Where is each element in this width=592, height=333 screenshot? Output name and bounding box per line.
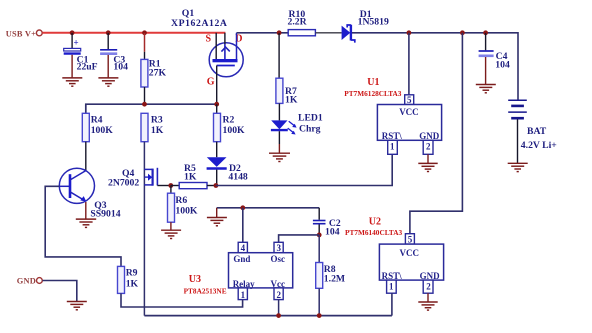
junction G/R2 bus: [214, 102, 219, 107]
svg-text:2: 2: [426, 281, 431, 291]
U1 pin 1 box: [388, 140, 398, 154]
ground (GND terminal): [67, 302, 87, 310]
junction R5/D2/RST net: [214, 183, 219, 188]
wire R7 top lead: [278, 33, 280, 78]
wire U3 pin3 to C2 junction: [279, 235, 320, 242]
svg-text:104: 104: [113, 62, 128, 73]
U3 pin 2 box: [274, 288, 283, 300]
wire LED1 ground stub: [278, 144, 280, 153]
svg-text:1K: 1K: [126, 278, 139, 289]
wire U2 GND stub: [427, 293, 429, 302]
svg-text:XP162A12A: XP162A12A: [171, 18, 228, 29]
wire R1 top lead (dark segment): [144, 52, 146, 60]
wire RST net (D2 junction to U1 pin1): [216, 154, 392, 185]
svg-text:R2: R2: [223, 114, 235, 125]
svg-text:5: 5: [408, 235, 413, 245]
wire U2 pin1 to bottom bus: [391, 293, 393, 315]
ground (under battery): [508, 163, 528, 171]
battery BAT: [508, 100, 527, 118]
wire C2 bottom lead: [318, 225, 320, 235]
svg-text:4: 4: [241, 243, 246, 253]
ground (under Q3): [76, 219, 96, 227]
svg-text:BAT: BAT: [527, 126, 547, 137]
resistor R3: [141, 113, 148, 141]
wire gate bias bus: [86, 104, 217, 113]
wire Q1 drain to R10: [237, 32, 289, 34]
ground (under C4): [476, 85, 496, 93]
svg-text:27K: 27K: [149, 67, 167, 78]
svg-text:U3: U3: [189, 274, 201, 285]
svg-text:G: G: [207, 77, 215, 88]
svg-text:4.2V Li+: 4.2V Li+: [521, 140, 558, 151]
resistor R5: [179, 183, 207, 189]
svg-text:R3: R3: [151, 114, 163, 125]
wire R2 top lead: [216, 104, 218, 113]
wire bottom bus: [144, 315, 392, 317]
resistor R1: [141, 59, 148, 87]
svg-text:R4: R4: [91, 114, 103, 125]
svg-text:1: 1: [389, 281, 394, 291]
svg-text:3: 3: [276, 243, 281, 253]
svg-text:104: 104: [495, 60, 510, 71]
svg-text:S: S: [206, 34, 212, 45]
junction C3/rail: [106, 30, 111, 35]
wire VBUS rail (red): [42, 32, 225, 34]
wire Q1 gate lead down: [216, 66, 218, 105]
svg-text:1K: 1K: [151, 125, 164, 136]
svg-text:5: 5: [407, 95, 412, 105]
junction R1/R3 bus: [142, 102, 147, 107]
U1 pin 2 box: [423, 140, 433, 154]
wire battery negative lead: [517, 119, 519, 163]
wire C3 top lead: [107, 33, 109, 49]
wire U3 pin4 lead: [242, 208, 244, 243]
svg-text:VCC: VCC: [400, 248, 420, 258]
wire C2 top lead: [318, 208, 320, 220]
wire R4 to Q3 collector: [85, 142, 87, 171]
junction U3-pin2/bus: [276, 313, 281, 318]
svg-text:2: 2: [276, 290, 281, 300]
terminal GND: [37, 278, 43, 284]
wire U1 GND stub: [427, 154, 429, 163]
svg-text:104: 104: [325, 226, 340, 237]
wire R1 bottom lead: [144, 87, 146, 104]
svg-text:Osc: Osc: [271, 254, 286, 264]
ground (under C3): [98, 78, 118, 86]
svg-text:+: +: [74, 38, 79, 48]
junction R8/bus: [317, 313, 322, 318]
U2 pin 1 box: [387, 280, 397, 293]
wire LED1 cathode lead: [278, 131, 280, 144]
wire R3 through Q4 to bottom bus: [143, 142, 145, 316]
wire U2 VCC feed: [410, 33, 463, 234]
svg-text:U1: U1: [367, 77, 379, 88]
resistor R6: [168, 193, 175, 222]
wire Q4 gate lead: [157, 185, 170, 187]
ground (under R6): [161, 230, 181, 238]
junction U2-feed/net: [460, 30, 465, 35]
junction U1-VCC/net: [407, 30, 412, 35]
ground (under U1 pin2): [418, 163, 437, 171]
svg-text:LED1: LED1: [298, 113, 323, 124]
wire C4 top lead: [485, 33, 487, 50]
wire OSC net (ground to C2 top): [217, 207, 320, 209]
ground (under LED1): [269, 153, 290, 161]
wire C3 ground stub: [107, 55, 109, 78]
svg-text:R6: R6: [175, 195, 187, 206]
svg-text:1K: 1K: [285, 94, 298, 105]
ground (OSC net): [207, 218, 227, 226]
svg-text:2N7002: 2N7002: [108, 178, 139, 189]
wire D2 cathode lead: [216, 170, 218, 186]
transistor Q1 (P-MOSFET): [209, 33, 243, 77]
terminal USB V+: [36, 30, 42, 36]
op-amp U3 body: [229, 253, 293, 288]
wire R8 feed from C2 junction: [318, 235, 320, 263]
svg-text:22uF: 22uF: [77, 62, 98, 73]
transistor Q4 (N-MOSFET): [144, 168, 157, 186]
U1 pin 5 box: [405, 95, 414, 105]
wire Q3 base to R9: [45, 186, 121, 266]
op-amp U2 body: [379, 244, 443, 280]
svg-text:U2: U2: [369, 216, 381, 227]
wire U3 pin2 to bus: [278, 300, 280, 316]
U3 pin 3 box: [274, 242, 283, 252]
capacitor C2: [313, 221, 326, 224]
svg-text:100K: 100K: [223, 125, 246, 136]
wire R6 top lead: [170, 186, 172, 194]
junction C4/net: [483, 30, 488, 35]
wire U1 VCC feed: [408, 33, 410, 95]
svg-text:1: 1: [390, 142, 395, 152]
junction Q4-gate/R5/R6: [168, 183, 173, 188]
svg-text:Chrg: Chrg: [299, 123, 321, 134]
wire R7 to LED1: [278, 103, 280, 120]
junction OSC/U3 pin4: [240, 205, 245, 210]
U3 pin 4 box: [238, 242, 247, 252]
resistor R9: [118, 266, 125, 293]
diode D1 (schottky): [342, 25, 355, 43]
wire C4 ground stub: [485, 57, 487, 84]
op-amp U1 body: [377, 105, 441, 141]
wire R8 bottom lead: [318, 288, 320, 315]
wire GND terminal to ground: [43, 281, 77, 302]
wire R5 left lead: [171, 185, 179, 187]
junction R1/rail: [142, 30, 147, 35]
ground (under C1): [62, 78, 82, 86]
resistor R7: [276, 78, 283, 103]
wire D1 cathode to battery (top net): [352, 33, 518, 100]
capacitor C3: [100, 50, 117, 54]
svg-text:100K: 100K: [175, 205, 198, 216]
ground (under U2 pin2): [418, 302, 437, 310]
LED LED1: [271, 120, 297, 134]
svg-text:GND: GND: [17, 276, 36, 285]
svg-text:PT7M6140CLTA3: PT7M6140CLTA3: [345, 228, 403, 237]
wire R5 right lead: [207, 185, 216, 187]
svg-text:1: 1: [241, 290, 246, 300]
wire R9 to U3 pin1: [121, 293, 243, 307]
svg-text:Gnd: Gnd: [233, 254, 250, 264]
wire R6 ground stub: [170, 222, 172, 230]
resistor R10: [288, 30, 315, 36]
svg-text:R9: R9: [126, 267, 138, 278]
svg-text:2: 2: [426, 142, 431, 152]
diode D2: [207, 157, 227, 168]
svg-text:1K: 1K: [184, 172, 197, 183]
wire C1 ground stub: [71, 55, 73, 78]
wire C1 top lead: [71, 33, 73, 48]
svg-text:PT8A2513NE: PT8A2513NE: [184, 286, 227, 295]
U2 pin 2 box: [423, 280, 433, 293]
svg-text:PT7M6128CLTA3: PT7M6128CLTA3: [344, 89, 402, 98]
resistor R2: [214, 113, 221, 141]
transistor Q3 (NPN): [59, 168, 94, 203]
resistor R8: [316, 263, 323, 289]
svg-text:USB V+: USB V+: [6, 29, 36, 38]
capacitor C1 (polarized): [64, 38, 81, 54]
junction C2/U3-pin3/R8: [317, 233, 322, 238]
svg-text:VCC: VCC: [399, 107, 419, 117]
wire R1 top lead (red segment): [144, 33, 146, 52]
wire Q3 emitter ground stub: [85, 202, 87, 219]
junction C1/rail: [70, 30, 75, 35]
svg-text:SS9014: SS9014: [90, 209, 120, 220]
wire R10 to D1 anode: [315, 32, 341, 34]
capacitor C4: [479, 51, 494, 56]
junction R7/R10: [277, 30, 282, 35]
U3 pin 1 box: [238, 288, 247, 300]
svg-text:2.2R: 2.2R: [288, 17, 308, 28]
U2 pin 5 box: [405, 234, 414, 244]
svg-text:1N5819: 1N5819: [358, 17, 389, 28]
svg-text:1.2M: 1.2M: [324, 273, 345, 284]
svg-text:4148: 4148: [228, 171, 248, 182]
resistor R4: [82, 113, 89, 141]
wire R2 to D2 anode: [216, 142, 218, 158]
wire OSC ground stub: [216, 208, 218, 217]
svg-text:100K: 100K: [91, 125, 114, 136]
